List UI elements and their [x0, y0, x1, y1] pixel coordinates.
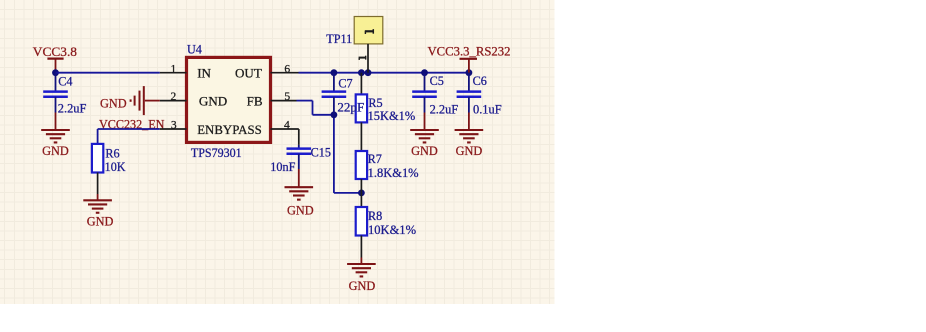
svg-text:R8: R8	[368, 209, 382, 223]
svg-text:FB: FB	[247, 94, 263, 109]
svg-text:OUT: OUT	[235, 66, 262, 81]
wire OUT rail	[299, 72, 469, 74]
node C7 bottom	[331, 111, 338, 118]
pin 3 EN	[160, 128, 187, 130]
wire R5-R7	[360, 122, 362, 151]
svg-text:C15: C15	[311, 145, 331, 159]
wire VCC3.8 to pin 1	[56, 72, 160, 74]
svg-text:1.8K&1%: 1.8K&1%	[368, 166, 419, 180]
pin 6 OUT	[271, 72, 299, 74]
svg-text:2.2uF: 2.2uF	[430, 103, 459, 117]
svg-text:6: 6	[284, 63, 290, 75]
ground under C4	[55, 113, 57, 131]
pin 5 FB	[271, 100, 297, 102]
svg-text:ENBYPASS: ENBYPASS	[197, 122, 262, 137]
svg-text:10K: 10K	[105, 160, 126, 174]
node VCC3.8 / junction	[52, 69, 59, 76]
capacitor C7	[333, 73, 335, 92]
ground under R6	[97, 194, 99, 200]
node at C6	[466, 69, 473, 76]
svg-text:TPS79301: TPS79301	[191, 146, 242, 160]
svg-text:GND: GND	[349, 279, 376, 293]
svg-text:15K&1%: 15K&1%	[368, 109, 416, 123]
svg-text:GND: GND	[199, 94, 227, 109]
wire FB (pin5) to divider	[297, 100, 313, 102]
svg-text:10K&1%: 10K&1%	[368, 223, 416, 237]
pin 1 IN	[160, 72, 187, 74]
svg-text:C7: C7	[338, 77, 352, 91]
svg-text:22pF: 22pF	[337, 101, 364, 115]
svg-text:C6: C6	[473, 74, 487, 88]
svg-text:C4: C4	[58, 75, 72, 89]
resistor R5	[360, 73, 362, 95]
svg-text:GND: GND	[100, 96, 127, 110]
wire pin3 to R6	[98, 128, 160, 130]
svg-text:10nF: 10nF	[270, 160, 295, 174]
ground under C15	[298, 169, 300, 187]
svg-text:2.2uF: 2.2uF	[58, 102, 87, 116]
ground under C6	[468, 113, 470, 131]
svg-text:GND: GND	[411, 144, 438, 158]
node R7/R8 junction	[358, 190, 365, 197]
op-amp / regulator U4 TPS79301 body	[187, 57, 271, 142]
resistor R6	[92, 144, 103, 173]
svg-text:C5: C5	[430, 74, 444, 88]
capacitor C4	[55, 73, 57, 92]
wire R8 to ground	[360, 236, 362, 258]
TP11 pin 1 (rotated glyphs)	[365, 30, 374, 32]
svg-text:GND: GND	[87, 214, 114, 228]
capacitor C6	[468, 73, 470, 92]
test point TP11	[354, 17, 383, 44]
svg-text:VCC3.3_RS232: VCC3.3_RS232	[428, 45, 511, 59]
resistor R7	[356, 151, 367, 179]
capacitor C15	[298, 145, 300, 149]
ground under C5	[424, 113, 426, 131]
capacitor C5	[424, 73, 426, 92]
svg-text:R6: R6	[105, 146, 119, 160]
resistor R8	[356, 207, 367, 236]
node at R5	[358, 69, 365, 76]
ground under R8	[347, 263, 376, 265]
svg-text:TP11: TP11	[326, 32, 352, 46]
svg-text:GND: GND	[287, 203, 314, 217]
svg-text:0.1uF: 0.1uF	[473, 103, 502, 117]
svg-text:GND: GND	[42, 144, 69, 158]
pin 2 GND	[160, 100, 187, 102]
svg-text:5: 5	[284, 91, 290, 103]
svg-text:2: 2	[171, 91, 177, 103]
node at C5	[421, 69, 428, 76]
node at C7	[331, 69, 338, 76]
svg-text:GND: GND	[456, 144, 483, 158]
svg-text:U4: U4	[187, 42, 202, 56]
pin 4 BYPASS	[271, 128, 299, 130]
node at TP11	[365, 69, 372, 76]
svg-text:1: 1	[171, 63, 177, 75]
svg-text:4: 4	[284, 119, 290, 131]
wire TP11 to rail	[367, 44, 369, 73]
svg-text:R7: R7	[368, 152, 382, 166]
svg-text:3: 3	[171, 119, 177, 131]
wire R7-R8	[360, 179, 362, 207]
svg-text:VCC3.8: VCC3.8	[33, 45, 77, 59]
svg-text:IN: IN	[197, 66, 211, 81]
